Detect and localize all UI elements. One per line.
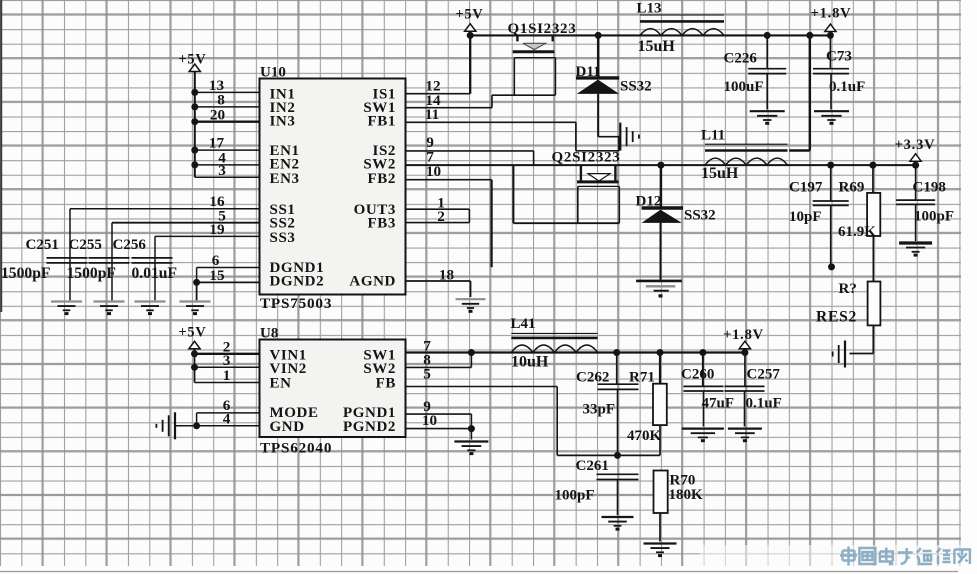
wire pin4 GND [175,425,260,427]
inductor L41 [511,333,597,352]
page left border [0,0,2,312]
svg-text:U8: U8 [260,326,278,342]
svg-text:+1.8V: +1.8V [811,6,852,22]
svg-text:EN: EN [270,376,292,392]
capacitor C198 [896,165,935,241]
junction C226 node [764,32,771,39]
ground PGND [454,442,488,456]
inductor L11 label [701,128,725,144]
junction C257/+1.8V node [741,349,748,356]
capacitor C262 [598,353,639,456]
power +5V (U8 rail) [178,325,206,349]
svg-text:0.1uF: 0.1uF [746,396,782,412]
pin number 4 (U8) [223,411,231,428]
ground under C198 [899,243,932,257]
wire SS3 cap drop [154,236,156,300]
svg-text:FB3: FB3 [368,216,396,232]
capacitor C261 label [576,458,609,474]
U10 reference designator [260,65,286,81]
pin number 19 [209,221,225,238]
svg-text:C198: C198 [913,180,946,196]
wire pin20 IN3 [195,121,260,123]
U10 left pin names [270,87,325,290]
transistor Q2 label [552,150,621,166]
svg-text:1500pF: 1500pF [1,265,50,282]
wire +5V rail vertical U10 [194,72,196,178]
transistor Q1 SI2323 [513,35,556,95]
svg-text:DGND2: DGND2 [270,274,325,290]
ground (sideways, U8 GND) [156,412,175,439]
wire pin4 EN2 [195,164,260,166]
svg-text:SS3: SS3 [270,230,296,246]
pin number 13 [209,77,225,94]
wire pin10 FB2 stub [406,180,492,268]
svg-text:4: 4 [223,411,231,428]
ground under DGND [180,302,211,316]
value 100pF (C261) [555,488,595,504]
pin number 3 [218,162,226,179]
junction GND/MODE [193,422,200,429]
ground under C257 [728,429,762,443]
value 0.1uF (C257) [746,396,782,412]
value SS32 (D12) [684,208,716,224]
value 100pF (C198) [914,209,954,225]
U10 right pin names [349,87,396,290]
value 61.9K (R69) [838,224,876,240]
capacitor C260 [684,353,724,427]
wire +5V rail vertical U8 [194,349,196,383]
svg-text:1: 1 [223,367,231,384]
value SS32 (D11) [620,79,652,95]
svg-text:C257: C257 [747,367,781,383]
value 1500pF (C255) [67,265,116,282]
U8 reference designator [260,326,278,342]
junction on +5V rail pin13 [191,89,198,96]
wire pin13 IN1 [195,91,260,93]
pin number 9 [426,134,434,151]
wire pin5 SS2 [112,222,260,224]
capacitor C260 label [681,367,714,383]
inductor L13 label [637,1,662,17]
resistor R71 [653,353,667,456]
diode D11 SS32 [576,35,619,136]
wire pin1 OUT3 [406,209,470,222]
svg-text:TPS75003: TPS75003 [260,295,332,312]
resistor R69 label [839,180,865,196]
capacitor C226 [748,35,786,109]
svg-text:100pF: 100pF [914,209,954,225]
svg-text:FB2: FB2 [368,171,396,187]
value 470K (R71) [627,428,662,444]
svg-text:180K: 180K [669,487,704,503]
wire DGND to ground [196,282,198,300]
ground under C261 [602,517,634,531]
svg-text:C256: C256 [113,237,147,253]
svg-text:FB1: FB1 [368,114,396,130]
wire pin16 SS1 [70,208,260,210]
svg-text:0.01uF: 0.01uF [132,265,178,282]
svg-text:+5V: +5V [178,52,206,68]
capacitor C226 label [724,51,758,67]
wire pin5 FB route [406,387,558,456]
capacitor C262 label [576,370,609,386]
svg-text:0.1uF: 0.1uF [829,79,865,95]
pin number 6 [212,252,220,269]
wire pin6 MODE [197,413,260,426]
power +3.3V [895,137,936,161]
capacitor C256 label [113,237,147,253]
svg-text:15uH: 15uH [701,165,739,182]
wire D11 to ground [598,136,619,138]
svg-text:100pF: 100pF [555,488,595,504]
svg-text:TPS62040: TPS62040 [260,440,332,457]
ground under C260 [682,429,724,443]
wire pin7 SW1 output rail [406,351,745,353]
resistor R70 label [670,473,696,489]
ground under C256 [135,302,166,316]
svg-text:+5V: +5V [455,7,483,23]
resistor R70 [654,471,668,542]
svg-text:C261: C261 [576,458,609,474]
svg-text:SS32: SS32 [620,79,652,95]
capacitor C197 [813,165,849,267]
inductor L41 label [511,316,536,332]
value 15uH (L13) [638,38,676,55]
pin number 1 [437,195,445,212]
svg-text:C260: C260 [681,367,714,383]
value 33pF (C262) [583,402,616,418]
junction VIN1 [191,350,198,357]
wire pin18 AGND [406,281,471,297]
power +1.8V (top) [811,6,852,32]
junction D11 anode node [595,32,602,39]
wire pin3 EN3 [195,176,260,178]
capacitor C255 [89,258,130,263]
junction R69 node [869,162,876,169]
power +1.8V (bottom) [723,327,764,349]
junction VIN2 [191,364,198,371]
value 10pF (C197) [789,209,822,225]
svg-text:10: 10 [426,163,442,180]
pin number 15 [209,267,225,284]
wire pin15 DGND2 [195,281,260,283]
svg-text:L11: L11 [701,128,725,144]
ground under C226 [750,111,785,125]
svg-text:R?: R? [839,281,857,297]
svg-text:U10: U10 [260,65,286,81]
wire pin9 PGND1 [406,414,472,439]
value 0.01uF (C256) [132,265,178,282]
wire pin14 SW1 to Q1 [406,95,556,108]
junction +5V top [467,32,474,39]
pin number 14 [425,92,441,109]
capacitor C251 label [26,237,59,253]
transistor Q2 SI2323 [577,165,619,223]
svg-text:C262: C262 [576,370,609,386]
svg-text:GND: GND [270,419,305,435]
svg-text:C255: C255 [69,237,102,253]
pin number 5 [218,208,226,225]
wire pin17 EN1 [195,149,260,151]
wire pin3 VIN2 [195,366,260,368]
svg-text:Q2SI2323: Q2SI2323 [552,150,621,166]
svg-text:10pF: 10pF [789,209,822,225]
pin number 8 (U8) [423,352,431,369]
svg-text:+3.3V: +3.3V [895,137,936,153]
pin number 17 [209,135,225,152]
junction C197 bottom [828,263,835,270]
svg-text:PGND2: PGND2 [343,419,396,435]
ground (sideways, D11) [620,123,639,151]
wire pin2 FB3 [406,222,470,224]
junction +3.3V node [912,162,919,169]
junction C197 node [827,162,834,169]
pin number 3 (U8) [223,352,231,369]
capacitor C197 label [789,180,823,196]
value 100uF (C226) [724,79,764,95]
pin number 10 (U8) [422,412,438,429]
ground under C73 [814,111,849,125]
pin number 16 [209,193,225,210]
capacitor C73 label [826,49,852,65]
pin number 8 [217,92,225,109]
svg-text:19: 19 [209,221,225,238]
wire FB node line [557,454,660,456]
pin number 2 [437,208,445,225]
svg-text:61.9K: 61.9K [838,224,876,240]
value RES2 (R7) [816,309,857,326]
value 15uH (L11) [701,165,739,182]
power +5V (top, Q1 source) [455,7,483,32]
junction D12 node [657,162,664,169]
svg-text:15uH: 15uH [638,38,676,55]
pin number 2 (U8) [223,339,231,356]
wire pin7 SW2 output rail [406,164,916,166]
svg-text:R71: R71 [629,370,655,386]
wire Q2 bottom loop [513,165,619,223]
junction on +5V rail pin17 [191,147,198,154]
U8 part value TPS62040 [260,440,332,457]
svg-text:L13: L13 [637,1,662,17]
pin number 6 (U8) [223,397,231,414]
value 180K (R70) [669,487,704,503]
ground (sideways, R7) [826,341,845,368]
op-amp U8 (TPS62040 converter) body [260,340,406,438]
svg-text:L41: L41 [511,316,536,332]
junction C260 node [699,349,706,356]
svg-text:C251: C251 [26,237,59,253]
page bottom border [0,571,958,573]
value 47uF (C260) [702,396,735,412]
svg-text:1500pF: 1500pF [67,265,116,282]
svg-text:RES2: RES2 [816,309,857,326]
junction DGND node [193,279,200,286]
capacitor C255 label [69,237,102,253]
svg-text:15: 15 [209,267,225,284]
wire pin6 DGND1 [197,268,260,283]
svg-text:33pF: 33pF [583,402,616,418]
capacitor C256 [132,258,173,263]
junction +1.8V elbow node [806,32,813,39]
inductor L11 [705,144,788,165]
junction on +5V rail pin4 [191,161,198,168]
wire R7 to side ground [850,353,874,355]
power +5V (U10 input rail) [178,52,206,72]
svg-text:20: 20 [210,107,226,124]
ground under D12 [636,281,682,298]
wire pin8 IN2 [195,106,260,108]
wire pin12 IS1 to +5V [406,35,471,93]
svg-text:3: 3 [218,162,226,179]
wire pin11 FB1 route [406,122,619,151]
capacitor C257 [725,353,765,427]
pin number 9 (U8) [423,398,431,415]
wire pin8 SW2 join [406,353,472,368]
transistor Q1 label [508,21,577,37]
pin number 12 [425,78,440,95]
svg-text:C226: C226 [724,51,758,67]
capacitor C198 label [913,180,946,196]
svg-text:+5V: +5V [178,325,206,341]
junction on +5V rail pin20 [191,118,198,125]
pin number 11 [425,106,439,123]
capacitor C261 [597,474,639,515]
ground under R70 [644,544,677,558]
junction C262 node [613,349,620,356]
ground AGND [456,299,486,313]
svg-text:R69: R69 [839,180,865,196]
diode D12 label [636,194,662,210]
svg-text:10uH: 10uH [511,354,549,371]
pin number 7 [426,149,434,166]
pin number 5 (U8) [423,366,431,383]
wire +1.8V elbow to L11 [789,35,810,150]
resistor R71 label [629,370,655,386]
wire pin9 IS2 route [406,151,534,165]
svg-text:EN3: EN3 [270,171,300,187]
svg-text:SS32: SS32 [684,208,716,224]
wire pin1 EN [195,382,260,384]
resistor R7 [868,282,881,354]
U10 part value TPS75003 [260,295,332,312]
pin number 18 [439,267,455,284]
ground under C255 [94,302,125,316]
junction +1.8V node [827,32,834,39]
wire SS1 cap drop [69,209,71,300]
diode D11 label [576,64,601,80]
op-amp U10 (TPS75003 regulator) body [260,79,406,295]
pin number 7 (U8) [423,338,431,355]
junction PGND [468,425,475,432]
capacitor C257 label [747,367,781,383]
svg-text:AGND: AGND [349,274,396,290]
value 1500pF (C251) [1,265,50,282]
resistor R7 label [839,281,857,297]
junction R71 node [657,349,664,356]
wire pin19 SS3 [155,235,260,237]
pin number 20 [210,107,226,124]
svg-text:FB: FB [376,376,396,392]
junction FB node [614,452,621,459]
svg-text:10: 10 [422,412,438,429]
pin number 1 (U8) [223,367,231,384]
value 0.1uF (C73) [829,79,865,95]
inductor L13 [640,15,724,35]
watermark text (chinese site logo) [840,547,970,566]
svg-text:100uF: 100uF [724,79,764,95]
pin number 4 [218,150,226,167]
capacitor C251 [47,258,88,263]
U8 left pin names [270,348,319,436]
wire +5V top node [470,34,830,36]
resistor R69 [867,165,880,281]
svg-text:Q1SI2323: Q1SI2323 [508,21,577,37]
junction SW node [468,349,475,356]
value 10uH (L41) [511,354,549,371]
wire SS2 cap drop [111,223,113,301]
svg-text:IN3: IN3 [270,114,296,130]
svg-text:47uF: 47uF [702,396,735,412]
diode D12 SS32 [642,165,683,280]
wire pin10 PGND2 [406,428,472,430]
pin number 10 [426,163,442,180]
wire pin2 VIN1 [195,353,260,355]
capacitor C73 [813,35,849,109]
svg-text:11: 11 [425,106,439,123]
ground under C251 [51,302,82,316]
svg-text:C197: C197 [789,180,823,196]
svg-text:5: 5 [423,366,431,383]
junction on +5V rail pin8 [191,103,198,110]
svg-text:470K: 470K [627,428,662,444]
U8 right pin names [343,348,396,436]
svg-text:+1.8V: +1.8V [723,327,764,343]
